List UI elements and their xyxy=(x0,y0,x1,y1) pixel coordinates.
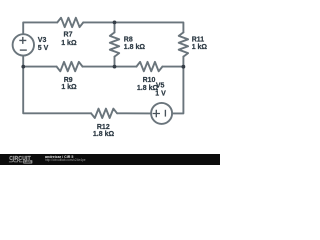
svg-text:R9: R9 xyxy=(64,77,73,84)
svg-text:V3: V3 xyxy=(38,37,47,44)
voltage source V5 circle xyxy=(151,103,172,124)
logo waveform xyxy=(9,160,23,162)
resistor R7 xyxy=(57,18,83,27)
junction node top of R8 xyxy=(113,21,117,25)
svg-text:1 kΩ: 1 kΩ xyxy=(192,44,208,51)
voltage source V3 circle xyxy=(13,34,34,55)
footer bar xyxy=(0,154,220,165)
svg-text:V5: V5 xyxy=(156,83,165,90)
junction node bottom of R8 xyxy=(113,65,117,69)
svg-text:1.8 kΩ: 1.8 kΩ xyxy=(124,44,146,51)
svg-text:LAB: LAB xyxy=(24,160,31,164)
wire R11 bottom lead xyxy=(182,57,184,67)
V5 plus sign xyxy=(153,110,160,117)
wire R8 bottom lead xyxy=(114,57,116,67)
wire top from R7 to top-right corner down to R11 xyxy=(83,22,183,32)
V3 minus sign xyxy=(20,49,27,51)
svg-text:1.8 kΩ: 1.8 kΩ xyxy=(93,131,115,138)
junction node right rail / R10 / R11 xyxy=(182,65,186,69)
svg-text:R8: R8 xyxy=(124,37,133,44)
svg-text:1 kΩ: 1 kΩ xyxy=(61,40,77,47)
svg-text:1 kΩ: 1 kΩ xyxy=(61,84,77,91)
svg-text:R10: R10 xyxy=(143,77,156,84)
wire middle row left xyxy=(23,66,56,68)
logo LAB badge xyxy=(23,160,32,164)
svg-text:R11: R11 xyxy=(192,37,205,44)
resistor R10 xyxy=(136,62,162,71)
wire middle row center xyxy=(83,66,137,68)
resistor R9 xyxy=(57,62,83,71)
wire left rail from V3 bottom to bottom-left corner and right to R12 xyxy=(23,56,91,114)
CircuitLab logo wordmark xyxy=(9,156,33,164)
wire right rail down to V5 xyxy=(172,67,183,114)
resistor R11 xyxy=(179,32,188,56)
wire R8 top lead xyxy=(114,22,116,32)
svg-text:R7: R7 xyxy=(64,32,73,39)
resistor R12 xyxy=(91,109,117,118)
junction node left rail / R9 xyxy=(21,65,25,69)
V3 plus sign xyxy=(19,37,26,44)
resistor R8 xyxy=(110,32,119,56)
wire middle row right xyxy=(162,66,183,68)
svg-text:http://circuitlab.com/c24e4pe: http://circuitlab.com/c24e4pe xyxy=(45,158,86,162)
svg-text:1 V: 1 V xyxy=(155,90,166,97)
wire from V3 top up and right to R7 xyxy=(23,22,57,34)
svg-text:5 V: 5 V xyxy=(38,45,49,52)
V5 minus sign (rotated) xyxy=(164,110,166,117)
svg-text:R12: R12 xyxy=(97,124,110,131)
wire from R12 to V5 xyxy=(117,112,151,114)
